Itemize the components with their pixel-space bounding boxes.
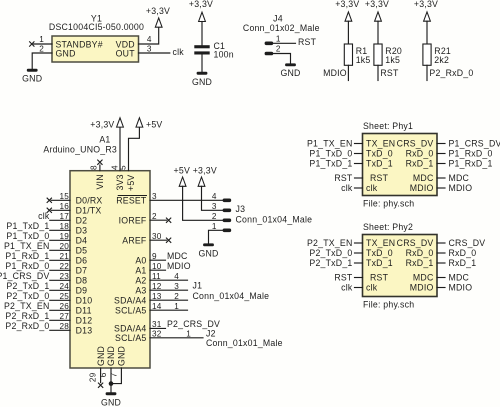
ground symbol below J4 <box>280 63 300 78</box>
svg-text:+3,3V: +3,3V <box>193 166 217 176</box>
svg-text:GND: GND <box>96 346 106 366</box>
wire below R21 with P2_RxD_0 label <box>427 65 473 80</box>
A1 pin 24 D9 label P2_TxD_1 <box>6 281 87 295</box>
svg-text:25: 25 <box>59 292 69 301</box>
svg-text:TX_EN: TX_EN <box>366 238 395 248</box>
svg-text:GND: GND <box>192 77 212 87</box>
A1 pin 21 D6 label P1_RxD_1 <box>5 251 87 265</box>
svg-text:2: 2 <box>39 45 44 54</box>
svg-text:SCL/A5: SCL/A5 <box>115 333 146 343</box>
svg-text:TxD_1: TxD_1 <box>366 159 393 169</box>
svg-text:P2_RxD_0: P2_RxD_0 <box>5 321 49 331</box>
svg-text:1: 1 <box>186 329 191 338</box>
svg-text:GND: GND <box>56 49 76 59</box>
svg-text:RxD_1: RxD_1 <box>406 159 434 169</box>
Phy1 pin CRS_DV label P1_CRS_DV <box>397 139 500 149</box>
svg-text:CRS_DV: CRS_DV <box>449 238 486 248</box>
svg-text:Sheet: Phy1: Sheet: Phy1 <box>363 121 413 131</box>
A1 pin 13 SDA/A4 wire to J1 pin 2 <box>114 292 187 306</box>
svg-text:P1_RxD_0: P1_RxD_0 <box>449 149 493 159</box>
svg-text:TX_EN: TX_EN <box>366 139 395 149</box>
Phy2 pin TxD_0 label P2_TxD_0 <box>309 248 392 258</box>
connector J3 Conn_01x04_Male labels <box>236 204 313 224</box>
ground symbol below C1 <box>192 72 212 87</box>
A1 pin 6 GND wire to ground <box>99 346 116 392</box>
svg-text:GND: GND <box>106 346 116 366</box>
svg-text:11: 11 <box>152 272 161 281</box>
svg-text:RxD_0: RxD_0 <box>406 248 434 258</box>
A1 pin 23 D8 label P1_CRS_DV <box>0 271 87 285</box>
svg-text:+3,3V: +3,3V <box>146 6 170 16</box>
A1 pin 25 D10 label P2_TxD_0 <box>6 291 92 305</box>
svg-text:P2_RxD_1: P2_RxD_1 <box>5 311 49 321</box>
J3 pin 1 wire to ground <box>209 222 223 244</box>
svg-text:SCL/A5: SCL/A5 <box>115 305 146 315</box>
svg-text:15: 15 <box>59 192 69 201</box>
svg-text:RxD_1: RxD_1 <box>449 258 477 268</box>
svg-text:D7: D7 <box>76 266 88 276</box>
svg-text:TxD_0: TxD_0 <box>366 149 393 159</box>
svg-text:SDA/A4: SDA/A4 <box>114 295 146 305</box>
svg-text:1k5: 1k5 <box>385 55 400 65</box>
svg-text:VIN: VIN <box>95 174 105 189</box>
Phy2 pin MDIO label MDIO <box>410 283 472 293</box>
svg-text:MDC: MDC <box>449 173 470 183</box>
svg-text:P2_TxD_0: P2_TxD_0 <box>309 248 352 258</box>
svg-text:13: 13 <box>152 292 162 301</box>
Phy2 pin MDC label MDC <box>413 273 469 283</box>
svg-text:D11: D11 <box>76 306 92 316</box>
svg-text:RST: RST <box>380 68 399 78</box>
svg-text:GND: GND <box>280 68 300 78</box>
svg-text:P2_RxD_0: P2_RxD_0 <box>429 68 473 78</box>
svg-text:File: phy.sch: File: phy.sch <box>363 199 414 209</box>
A1 pin 18 D3 label P1_TxD_1 <box>6 221 87 235</box>
svg-text:IOREF: IOREF <box>119 215 147 225</box>
svg-text:D10: D10 <box>76 296 93 306</box>
wire +3,3V to C1 <box>201 22 203 46</box>
A1 pin 22 D7 label P1_RxD_0 <box>5 261 87 275</box>
Phy2 pin RxD_1 label RxD_1 <box>406 258 477 268</box>
A1 pin 27 D12 label P2_RxD_1 <box>5 311 92 325</box>
svg-text:MDIO: MDIO <box>449 283 473 293</box>
svg-text:24: 24 <box>59 282 69 291</box>
Phy1 pin clk label clk <box>341 183 378 193</box>
svg-text:Conn_01x01_Male: Conn_01x01_Male <box>206 338 283 348</box>
svg-text:20: 20 <box>59 242 69 251</box>
svg-text:30: 30 <box>152 232 162 241</box>
Phy2 pin RST label RST <box>334 273 388 283</box>
A1 pin 11 A2 wire to J1 pin 4 <box>135 272 187 286</box>
A1 pin 17 D2 label clk <box>38 211 87 225</box>
svg-text:4: 4 <box>147 35 152 44</box>
svg-text:D1/TX: D1/TX <box>76 206 102 216</box>
A1 pin 26 D11 label P2_TX_EN <box>4 301 92 315</box>
power symbol +3,3V at Y1 <box>146 6 170 27</box>
A1 pin 10 A1 label MDIO <box>135 261 190 276</box>
svg-text:GND: GND <box>117 346 127 366</box>
svg-text:22: 22 <box>59 262 69 271</box>
J3 pin 2 wire to +5V <box>183 186 223 221</box>
Phy1 pin TxD_0 label P1_TxD_0 <box>309 149 392 159</box>
svg-text:MDIO: MDIO <box>167 261 191 271</box>
connector J4 Conn_01x02_Male <box>243 14 320 33</box>
resistor R20 1k5 <box>374 44 402 65</box>
svg-text:RxD_1: RxD_1 <box>406 258 434 268</box>
svg-text:+5V: +5V <box>174 166 190 176</box>
Phy2 pin clk label clk <box>341 283 378 293</box>
A1 pin 14 SCL/A5 wire to J1 pin 1 <box>115 302 187 316</box>
svg-text:3: 3 <box>212 202 217 211</box>
svg-text:MDIO: MDIO <box>410 283 434 293</box>
svg-text:P2_TX_EN: P2_TX_EN <box>4 301 50 311</box>
resistor R1 1k5 <box>344 44 370 65</box>
svg-text:D0/RX: D0/RX <box>76 196 103 206</box>
Phy1 pin MDC label MDC <box>413 173 469 183</box>
svg-text:A2: A2 <box>135 275 146 285</box>
hierarchical sheet Phy2 <box>363 222 438 310</box>
svg-text:RxD_0: RxD_0 <box>449 248 477 258</box>
svg-text:P1_CRS_DV: P1_CRS_DV <box>449 139 500 149</box>
oscillator Y1 DSC1004CI5-050.0000 <box>49 14 144 63</box>
svg-text:P1_TxD_0: P1_TxD_0 <box>309 149 352 159</box>
J4 pin 1 with RST label <box>265 35 317 47</box>
power symbol +3,3V at R20 <box>365 0 389 21</box>
wire +3,3V to R20 <box>377 21 379 44</box>
capacitor C1 100n <box>194 41 234 60</box>
svg-text:RxD_0: RxD_0 <box>406 149 434 159</box>
svg-text:A1: A1 <box>135 265 146 275</box>
svg-text:D4: D4 <box>76 236 88 246</box>
svg-text:J1: J1 <box>193 281 203 291</box>
Y1 pin 4 wire to +3,3V <box>139 27 159 44</box>
A1 pin 28 D13 label P2_RxD_0 <box>5 321 92 335</box>
A1 pin 19 D4 label P1_TxD_0 <box>6 231 87 245</box>
Phy2 pin TX_EN label P2_TX_EN <box>307 238 395 248</box>
wire below R1 with MDIO label <box>323 65 348 80</box>
J4 pin 2 wire to ground <box>265 45 291 64</box>
Phy2 pin TxD_1 label P2_TxD_1 <box>309 258 392 268</box>
svg-text:32: 32 <box>152 329 162 338</box>
A1 pin 8 VIN no-connect <box>90 160 105 190</box>
svg-text:File: phy.sch: File: phy.sch <box>363 300 414 310</box>
svg-text:P2_TxD_0: P2_TxD_0 <box>6 291 49 301</box>
svg-text:MDC: MDC <box>449 273 470 283</box>
svg-text:+5V: +5V <box>126 175 136 191</box>
svg-text:23: 23 <box>59 272 69 281</box>
svg-text:RST: RST <box>298 37 317 47</box>
svg-text:Conn_01x02_Male: Conn_01x02_Male <box>243 23 320 33</box>
svg-text:clk: clk <box>341 283 353 293</box>
svg-text:MDC: MDC <box>167 251 188 261</box>
svg-text:MDIO: MDIO <box>449 183 473 193</box>
Phy1 pin MDIO label MDIO <box>410 183 472 193</box>
svg-text:100n: 100n <box>214 50 234 60</box>
svg-text:9: 9 <box>152 252 157 261</box>
svg-text:+3,3V: +3,3V <box>365 0 389 9</box>
svg-text:D6: D6 <box>76 256 88 266</box>
power symbol +3,3V at A1 <box>90 118 123 130</box>
svg-text:J3: J3 <box>236 204 246 214</box>
svg-text:1: 1 <box>276 35 281 44</box>
svg-text:P1_TX_EN: P1_TX_EN <box>4 241 50 251</box>
svg-text:P1_CRS_DV: P1_CRS_DV <box>0 271 50 281</box>
svg-text:3: 3 <box>174 282 179 291</box>
svg-text:D2: D2 <box>76 216 88 226</box>
A1 pin 31 SDA/A4 label P2_CRS_DV <box>114 319 220 334</box>
A1 pin 3 RESET wire to J3 pin 4 <box>116 192 222 206</box>
Phy1 pin TxD_1 label P1_TxD_1 <box>309 159 392 169</box>
svg-text:A3: A3 <box>135 285 146 295</box>
Phy1 pin TX_EN label P1_TX_EN <box>307 139 395 149</box>
svg-text:+3,3V: +3,3V <box>90 120 114 130</box>
power symbol +5V at J3 <box>174 166 190 187</box>
svg-text:1: 1 <box>212 222 217 231</box>
svg-text:RST: RST <box>370 273 389 283</box>
svg-text:P2_TxD_1: P2_TxD_1 <box>6 281 49 291</box>
svg-text:27: 27 <box>59 312 69 321</box>
resistor R21 2k2 <box>423 44 451 65</box>
power symbol +5V at A1 <box>136 118 162 130</box>
svg-text:8: 8 <box>90 165 99 170</box>
svg-text:10: 10 <box>152 262 162 271</box>
svg-text:P2_TX_EN: P2_TX_EN <box>307 238 353 248</box>
svg-text:+3,3V: +3,3V <box>189 0 213 9</box>
svg-text:D9: D9 <box>76 286 88 296</box>
svg-text:D5: D5 <box>76 246 88 256</box>
svg-text:RST: RST <box>334 273 353 283</box>
A1 pin 29 GND no-connect <box>89 346 106 388</box>
svg-text:P2_TxD_1: P2_TxD_1 <box>309 258 352 268</box>
svg-text:P1_TX_EN: P1_TX_EN <box>307 139 353 149</box>
A1 pin 32 SCL/A5 wire to J2 pin 1 <box>115 329 203 343</box>
svg-text:Conn_01x04_Male: Conn_01x04_Male <box>193 291 270 301</box>
svg-text:2: 2 <box>152 212 157 221</box>
A1 pin 4 3V3 wire to +3,3V <box>110 127 125 190</box>
svg-text:TxD_1: TxD_1 <box>366 258 393 268</box>
Y1 pin 3 OUT wire with clk label <box>139 45 185 58</box>
connector J2 Conn_01x01_Male labels <box>206 329 283 349</box>
junction at GND net <box>109 381 114 386</box>
svg-text:3: 3 <box>147 45 152 54</box>
ground symbol below A1 <box>101 392 121 407</box>
svg-text:1: 1 <box>174 302 179 311</box>
svg-text:clk: clk <box>38 211 50 221</box>
wire +3,3V to R21 <box>426 21 428 44</box>
svg-text:D13: D13 <box>76 326 93 336</box>
svg-text:D12: D12 <box>76 316 93 326</box>
svg-text:2: 2 <box>212 212 217 221</box>
A1 pin 5 +5V wire to +5V <box>119 127 140 191</box>
svg-text:4: 4 <box>212 192 217 201</box>
svg-text:RESET: RESET <box>116 196 147 206</box>
ground symbol below Y1 <box>22 69 42 84</box>
svg-text:MDIO: MDIO <box>410 183 434 193</box>
svg-text:1k5: 1k5 <box>356 55 371 65</box>
svg-text:3V3: 3V3 <box>115 174 125 190</box>
svg-text:16: 16 <box>59 202 69 211</box>
power symbol +3,3V at J3 <box>193 166 217 187</box>
svg-text:Conn_01x04_Male: Conn_01x04_Male <box>236 214 313 224</box>
connector J3 pin 2 <box>223 219 232 223</box>
svg-text:RST: RST <box>334 173 353 183</box>
svg-text:P1_TxD_0: P1_TxD_0 <box>6 231 49 241</box>
wire C1 to ground <box>201 55 203 72</box>
A1 pin 7 GND wire <box>109 346 126 384</box>
svg-text:J2: J2 <box>206 329 216 339</box>
svg-text:GND: GND <box>198 248 218 258</box>
svg-text:MDC: MDC <box>413 273 434 283</box>
svg-text:28: 28 <box>59 322 69 331</box>
wire +3,3V to R1 <box>347 21 349 44</box>
A1 pin 2 IOREF no-connect <box>119 212 172 226</box>
svg-text:clk: clk <box>366 183 378 193</box>
connector J3 pin 1 <box>223 229 232 233</box>
Arduino A1 Arduino_UNO_R3 body <box>43 135 150 368</box>
svg-text:AREF: AREF <box>122 235 146 245</box>
power symbol +3,3V at C1 <box>189 0 213 21</box>
power symbol +3,3V at R1 <box>335 0 359 21</box>
svg-text:GND: GND <box>22 73 42 83</box>
svg-text:clk: clk <box>173 47 185 57</box>
svg-text:DSC1004CI5-050.0000: DSC1004CI5-050.0000 <box>49 22 144 32</box>
svg-text:29: 29 <box>89 372 98 382</box>
svg-text:17: 17 <box>59 212 69 221</box>
hierarchical sheet Phy1 <box>363 121 438 209</box>
svg-text:+5V: +5V <box>146 120 162 130</box>
svg-text:RST: RST <box>370 173 389 183</box>
svg-text:P1_TxD_1: P1_TxD_1 <box>309 159 352 169</box>
svg-text:3: 3 <box>152 192 157 201</box>
svg-text:A1: A1 <box>99 135 110 145</box>
Phy2 pin RxD_0 label RxD_0 <box>406 248 477 258</box>
svg-text:19: 19 <box>59 232 69 241</box>
A1 pin 15 D0/RX <box>47 192 103 206</box>
svg-text:clk: clk <box>366 283 378 293</box>
svg-text:+3,3V: +3,3V <box>335 0 359 9</box>
power symbol +3,3V at R21 <box>414 0 438 21</box>
svg-text:Arduino_UNO_R3: Arduino_UNO_R3 <box>43 145 117 155</box>
svg-text:2: 2 <box>174 292 179 301</box>
svg-text:12: 12 <box>152 282 162 291</box>
svg-text:5: 5 <box>119 165 128 170</box>
svg-text:CRS_DV: CRS_DV <box>397 238 434 248</box>
svg-text:P1_RxD_1: P1_RxD_1 <box>449 159 493 169</box>
svg-text:MDIO: MDIO <box>323 68 347 78</box>
svg-text:OUT: OUT <box>116 49 136 59</box>
svg-text:6: 6 <box>99 372 108 377</box>
svg-text:clk: clk <box>341 183 353 193</box>
svg-text:P1_RxD_0: P1_RxD_0 <box>5 261 49 271</box>
Phy1 pin RxD_1 label P1_RxD_1 <box>406 159 493 169</box>
A1 pin 20 D5 label P1_TX_EN <box>4 241 87 255</box>
connector J3 pin 3 <box>223 209 232 213</box>
Phy1 pin RxD_0 label P1_RxD_0 <box>406 149 493 159</box>
svg-text:P1_RxD_1: P1_RxD_1 <box>5 251 49 261</box>
svg-text:CRS_DV: CRS_DV <box>397 139 434 149</box>
J3 pin 3 wire to +3,3V <box>202 186 223 211</box>
svg-text:18: 18 <box>59 222 69 231</box>
svg-text:21: 21 <box>59 252 69 261</box>
svg-text:A0: A0 <box>135 255 146 265</box>
svg-text:TxD_0: TxD_0 <box>366 248 393 258</box>
svg-text:4: 4 <box>174 272 179 281</box>
svg-text:14: 14 <box>152 302 162 311</box>
svg-text:2: 2 <box>276 45 281 54</box>
Y1 pin 2 wire to ground <box>32 45 52 69</box>
svg-text:Sheet: Phy2: Sheet: Phy2 <box>363 222 413 232</box>
svg-text:31: 31 <box>152 320 162 329</box>
svg-text:2k2: 2k2 <box>434 55 449 65</box>
svg-text:26: 26 <box>59 302 69 311</box>
A1 pin 30 AREF no-connect <box>122 232 171 246</box>
A1 pin 16 D1/TX <box>47 202 102 216</box>
svg-text:7: 7 <box>109 372 118 377</box>
Y1 pin 1 no-connect <box>29 35 52 46</box>
wire below R20 with RST label <box>378 65 399 80</box>
svg-text:D3: D3 <box>76 226 88 236</box>
Phy1 pin RST label RST <box>334 173 388 183</box>
connector J3 pin 4 <box>223 199 232 203</box>
A1 pin 9 A0 label MDC <box>135 251 187 266</box>
svg-text:+3,3V: +3,3V <box>414 0 438 9</box>
Phy2 pin CRS_DV label CRS_DV <box>397 238 486 248</box>
svg-text:MDC: MDC <box>413 173 434 183</box>
svg-text:P1_TxD_1: P1_TxD_1 <box>6 221 49 231</box>
connector J1 Conn_01x04_Male labels <box>193 281 270 301</box>
A1 pin 12 A3 wire to J1 pin 3 <box>135 282 187 296</box>
svg-text:1: 1 <box>39 35 44 44</box>
svg-text:GND: GND <box>101 398 121 407</box>
ground symbol below J3 <box>198 243 218 258</box>
svg-text:D8: D8 <box>76 276 88 286</box>
